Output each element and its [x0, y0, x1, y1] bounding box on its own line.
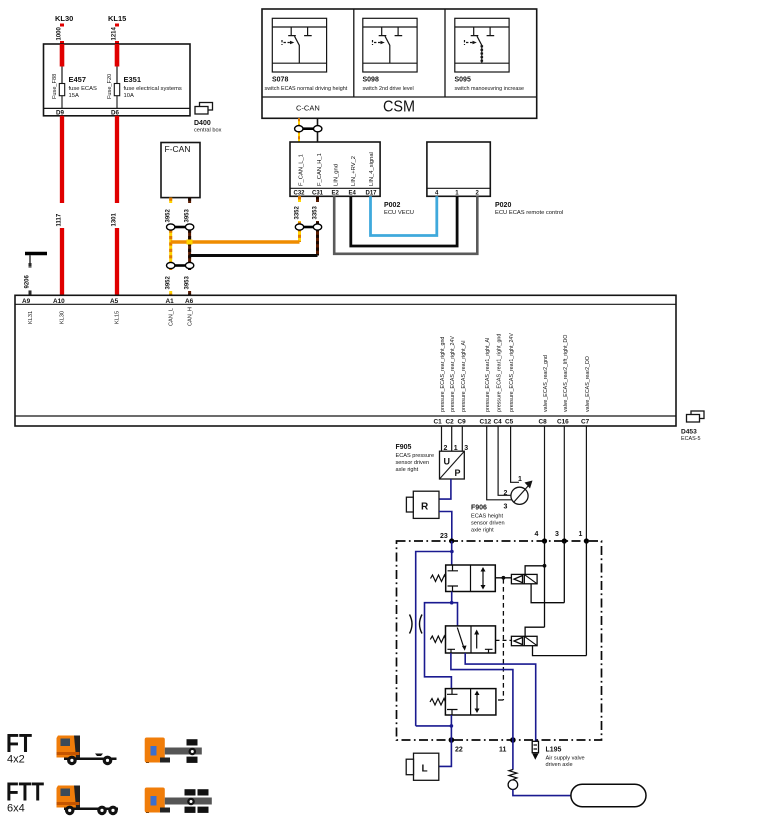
- svg-text:C-CAN: C-CAN: [296, 104, 320, 113]
- svg-text:S098: S098: [363, 77, 379, 84]
- svg-text:1000: 1000: [57, 26, 63, 40]
- svg-text:valve_ECAS_rear2_DO: valve_ECAS_rear2_DO: [585, 356, 591, 412]
- solenoid 1: [511, 574, 537, 583]
- R letter: [421, 502, 429, 513]
- svg-text:KL31: KL31: [28, 311, 34, 324]
- svg-text:switch 2nd drive level: switch 2nd drive level: [363, 86, 414, 92]
- svg-text:E4: E4: [349, 191, 357, 197]
- svg-text:pressure_ECAS_rear1_right_gnd: pressure_ECAS_rear1_right_gnd: [497, 334, 503, 412]
- ECU ECAS remote control P020 box: [427, 142, 490, 196]
- central box E-box outline: [44, 44, 191, 116]
- svg-text:4: 4: [535, 531, 539, 538]
- svg-text:KL30: KL30: [60, 311, 66, 324]
- svg-text:C32: C32: [294, 191, 306, 197]
- fuse E457 labels: [52, 74, 97, 99]
- wire 1301 red fuse D6 to ECU A5: [112, 116, 122, 295]
- ECU bottom pin C1: [434, 419, 590, 426]
- connector icon D400 central box: [195, 103, 213, 115]
- svg-text:D400: D400: [194, 120, 211, 127]
- ECU top pin A6: [185, 298, 194, 305]
- svg-text:1117: 1117: [57, 213, 63, 226]
- F906 pin number 3: [504, 504, 508, 511]
- wire blue valve1 node to valve3 top: [425, 603, 452, 689]
- wire blue pin 11 down to check valve: [512, 740, 514, 770]
- valve block pin 4: [535, 531, 548, 544]
- 4x2 label: [7, 754, 25, 766]
- svg-text:23: 23: [440, 533, 448, 540]
- svg-text:ECU VECU: ECU VECU: [384, 210, 414, 216]
- truck FTT top view: [145, 788, 212, 814]
- svg-text:E2: E2: [332, 191, 340, 197]
- L letter: [422, 764, 428, 775]
- valve 2 body: [446, 626, 496, 653]
- svg-text:C8: C8: [539, 419, 548, 426]
- valve 1 spring: [431, 575, 447, 582]
- svg-text:C5: C5: [505, 419, 514, 426]
- inline connector pair on F-CAN legs upper: [167, 224, 194, 230]
- truck FT side view: [57, 736, 117, 766]
- svg-text:A6: A6: [185, 298, 194, 305]
- svg-text:Fuse_F20: Fuse_F20: [107, 74, 113, 99]
- svg-text:C1: C1: [434, 419, 443, 426]
- connector icon D453: [687, 411, 705, 422]
- solenoid 2: [511, 636, 537, 645]
- svg-text:L195: L195: [546, 747, 562, 754]
- svg-text:9206: 9206: [25, 274, 31, 288]
- S078 labels: [265, 77, 348, 93]
- wire blue pin 22 to connector L: [439, 740, 452, 766]
- wire 3953 brown F-CAN right leg: [185, 198, 194, 296]
- wire ECU C12 to height sensor F906 pin 3: [487, 426, 512, 500]
- svg-text:D9: D9: [56, 110, 64, 117]
- wire 9206 ground to ECU A9: [25, 263, 35, 295]
- svg-text:S095: S095: [455, 77, 471, 84]
- wire ECU C7 to valve block pin 1: [585, 426, 587, 541]
- svg-text:11: 11: [499, 747, 507, 754]
- svg-text:C12: C12: [480, 419, 492, 426]
- wire black pin4 to solenoid2 top: [525, 627, 544, 636]
- svg-text:valve_ECAS_rear2_gnd: valve_ECAS_rear2_gnd: [543, 355, 549, 412]
- valve block pin 3: [555, 531, 567, 544]
- height sensor F906: [511, 481, 533, 505]
- wire black solenoid1 to pin 3: [531, 584, 564, 603]
- throttle symbol on riser: [410, 615, 423, 634]
- pilot wire blue pin 23 into valve 1: [450, 541, 454, 567]
- pin D6: [111, 110, 119, 117]
- svg-text:KL15: KL15: [115, 311, 121, 324]
- wire C-CAN L orange from CSM to VECU C32: [298, 118, 300, 142]
- P020 label: [495, 202, 563, 216]
- wire ECU C8 to valve block pin 4: [544, 426, 546, 541]
- valve 3 spring: [430, 699, 446, 706]
- svg-text:KL30: KL30: [55, 14, 73, 23]
- svg-text:pressure_ECAS_rear1_right_AI: pressure_ECAS_rear1_right_AI: [485, 338, 491, 413]
- svg-text:R: R: [421, 502, 429, 513]
- valve block pin 11: [499, 737, 516, 753]
- wire ECU C16 to valve block pin 3: [563, 426, 565, 541]
- truck FTT side view: [57, 786, 119, 816]
- wire blue valve3 bottom to pin 22 with riser junction: [416, 715, 454, 740]
- svg-text:ECAS height: ECAS height: [471, 514, 503, 520]
- svg-text:switch manoeuvring increase: switch manoeuvring increase: [455, 86, 525, 92]
- svg-text:axle right: axle right: [471, 528, 494, 534]
- svg-text:P020: P020: [495, 202, 511, 209]
- valve 1 levelling valve body: [446, 565, 496, 592]
- dashed pilot valve2 to solenoid2: [496, 639, 512, 641]
- svg-text:4x2: 4x2: [7, 754, 25, 766]
- D453 label: [681, 429, 700, 443]
- svg-text:F-CAN: F-CAN: [165, 144, 191, 154]
- svg-text:A9: A9: [22, 298, 31, 305]
- wire blue left riser from node 23: [416, 552, 452, 726]
- wire red inside box to fuse E457: [60, 44, 65, 84]
- svg-text:3953: 3953: [185, 275, 191, 289]
- valve 3 body: [445, 689, 496, 715]
- svg-text:pressure_ECAS_rear_right_gnd: pressure_ECAS_rear_right_gnd: [440, 337, 446, 412]
- F906 pin number 2: [504, 490, 508, 497]
- svg-text:22: 22: [455, 747, 463, 754]
- svg-text:L: L: [422, 764, 428, 775]
- svg-text:1301: 1301: [112, 212, 118, 226]
- ECU top pin A1: [166, 298, 175, 305]
- wire black solenoid2 to pin 1: [533, 646, 587, 656]
- svg-text:LIN_+RV_2: LIN_+RV_2: [351, 156, 357, 186]
- F905 label: [396, 444, 435, 473]
- svg-text:3352: 3352: [295, 205, 301, 219]
- ECU VECU P002 box: [290, 142, 380, 196]
- svg-text:1214: 1214: [112, 26, 118, 40]
- valve 2 spring: [430, 636, 446, 643]
- svg-text:C7: C7: [581, 419, 590, 426]
- svg-text:3: 3: [555, 531, 559, 538]
- 6x4 label: [7, 803, 25, 815]
- ECU ECAS main box D453: [15, 295, 676, 426]
- truck FT top view: [145, 738, 202, 764]
- svg-text:CSM: CSM: [383, 99, 415, 116]
- check valve spring: [509, 770, 517, 780]
- switch S098 symbol: [363, 18, 417, 72]
- P020 pin numbers: [435, 191, 480, 197]
- F-CAN box: [161, 143, 200, 198]
- D400 label: [194, 120, 222, 134]
- svg-text:CAN_H: CAN_H: [188, 307, 194, 326]
- valve block dash-dot enclosure: [397, 541, 602, 740]
- pressure sensor F905: [440, 451, 465, 479]
- svg-text:A1: A1: [166, 298, 175, 305]
- C-CAN node label: [296, 104, 320, 113]
- wire blue R to valve block pin 23: [439, 512, 452, 542]
- svg-text:ECAS pressure: ECAS pressure: [396, 453, 435, 459]
- ECU top pin A10: [53, 298, 65, 305]
- wire blue valve2 left port to pin 11: [451, 653, 513, 740]
- CSM label: [383, 99, 415, 116]
- CSM box outline: [262, 9, 537, 118]
- svg-text:sensor driven: sensor driven: [471, 521, 505, 527]
- air supply valve L195 symbol: [532, 740, 538, 760]
- svg-text:ECU ECAS remote control: ECU ECAS remote control: [495, 210, 563, 216]
- wire 3952 yellow F-CAN left leg: [166, 198, 176, 296]
- svg-text:2: 2: [504, 490, 508, 497]
- svg-text:CAN_L: CAN_L: [169, 308, 175, 326]
- svg-text:3953: 3953: [185, 208, 191, 222]
- wire blue LIN_4_signal D17 to P020 pin 4: [371, 196, 437, 235]
- wire 3353 brown below VECU C31: [313, 196, 322, 255]
- wire orange F-CAN L horizontal run: [171, 240, 300, 245]
- wire red inside box to fuse E351: [115, 44, 120, 84]
- wire black pin1 down: [585, 541, 587, 656]
- svg-text:C9: C9: [458, 419, 467, 426]
- wire 1214 red from KL15 to fuse box: [112, 24, 122, 45]
- svg-text:pressure_ECAS_rear1_right_24V: pressure_ECAS_rear1_right_24V: [509, 333, 515, 412]
- wire black valve1 to solenoid1 with pilot node: [495, 576, 511, 580]
- svg-text:switch ECAS normal driving hei: switch ECAS normal driving height: [265, 86, 348, 92]
- wire ECU C9 to sensor F905 pin 3: [461, 426, 463, 451]
- wire ECU C5 to height sensor F906 pin 1: [511, 426, 519, 482]
- svg-text:6x4: 6x4: [7, 803, 25, 815]
- L195 label: [546, 747, 585, 769]
- wire black pin3 down: [563, 541, 565, 603]
- inline connector pair below CSM: [295, 126, 322, 132]
- svg-text:F_CAN_L_1: F_CAN_L_1: [299, 154, 305, 186]
- connector L box: [406, 753, 439, 780]
- valve block pin 23: [440, 533, 454, 544]
- svg-text:A5: A5: [110, 298, 119, 305]
- air reservoir: [571, 784, 646, 806]
- svg-text:3952: 3952: [166, 208, 172, 222]
- svg-text:LIN_4_signal: LIN_4_signal: [369, 152, 375, 186]
- inline connector pair below VECU: [295, 224, 321, 230]
- ground symbol: [25, 254, 47, 264]
- svg-text:3: 3: [504, 504, 508, 511]
- wire blue check valve to reservoir: [513, 790, 571, 796]
- svg-text:C2: C2: [446, 419, 455, 426]
- resistor connector R: [406, 491, 439, 518]
- svg-text:S078: S078: [272, 77, 288, 84]
- svg-text:pressure_ECAS_rear_right_AI: pressure_ECAS_rear_right_AI: [461, 340, 467, 412]
- svg-text:fuse electrical systems: fuse electrical systems: [124, 86, 182, 92]
- check valve circle: [508, 780, 518, 790]
- svg-text:Fuse_F88: Fuse_F88: [52, 74, 58, 99]
- ECU bottom pin names: [440, 333, 591, 412]
- ECU top pin A9: [22, 298, 31, 305]
- ECU top pin A5: [110, 298, 119, 305]
- wire ECU C1 to sensor F905 pin 2: [441, 426, 443, 451]
- ECU internal names top: [28, 307, 194, 326]
- fuse E351 labels: [107, 74, 182, 99]
- F906 pin number 1: [518, 476, 522, 483]
- switch S078 symbol: [272, 18, 326, 72]
- svg-text:D453: D453: [681, 429, 697, 436]
- pin D9: [56, 110, 64, 117]
- switch S095 symbol: [455, 18, 509, 72]
- svg-text:F906: F906: [471, 505, 487, 512]
- svg-text:U: U: [444, 457, 451, 467]
- svg-text:1: 1: [518, 476, 522, 483]
- F906 label: [471, 505, 505, 534]
- wire 1117 red fuse D9 to ECU A10: [57, 116, 67, 295]
- svg-text:1: 1: [579, 531, 583, 538]
- wire 3352 yellow below VECU C32: [295, 196, 304, 242]
- svg-text:F905: F905: [396, 444, 412, 451]
- F905 pin numbers 2 1 3: [444, 445, 469, 452]
- svg-text:valve_ECAS_rear2_lift_right_DO: valve_ECAS_rear2_lift_right_DO: [563, 335, 569, 412]
- S095 labels: [455, 77, 525, 93]
- wire gray LIN_gnd E2 to P020 pin 2: [334, 196, 477, 254]
- wire ECU C4 to height sensor F906 pin 2: [498, 426, 511, 495]
- svg-text:sensor driven: sensor driven: [396, 460, 430, 466]
- svg-text:C16: C16: [557, 419, 569, 426]
- svg-text:KL15: KL15: [108, 14, 126, 23]
- wire blue valve1 bottom node: [450, 592, 454, 605]
- FTT label: [6, 777, 44, 807]
- svg-text:3353: 3353: [313, 205, 319, 219]
- svg-text:axle right: axle right: [396, 467, 419, 473]
- svg-text:fuse ECAS: fuse ECAS: [69, 86, 97, 92]
- wire blue F905 to R: [439, 479, 451, 499]
- wire black pin4 down with junction: [543, 541, 547, 627]
- svg-text:ECAS-5: ECAS-5: [681, 436, 700, 442]
- wire black F-CAN H horizontal run: [190, 254, 318, 257]
- svg-text:D6: D6: [111, 110, 119, 117]
- svg-text:F_CAN_H_1: F_CAN_H_1: [317, 153, 323, 186]
- svg-text:E351: E351: [124, 75, 142, 84]
- P002 label: [384, 202, 414, 216]
- F905 U P letters: [444, 457, 461, 479]
- wire ECU C2 to sensor F905 pin 1: [451, 426, 453, 451]
- P002 pin names: [299, 152, 376, 186]
- wire C-CAN H black from CSM to VECU C31: [317, 118, 319, 142]
- net KL15 label: [108, 14, 126, 23]
- wire black pin4 junction to solenoid1 top: [525, 566, 544, 575]
- svg-text:3952: 3952: [166, 275, 172, 289]
- svg-text:pressure_ECAS_rear_right_24V: pressure_ECAS_rear_right_24V: [450, 336, 456, 412]
- wire blue valve1 to valve2 top: [452, 603, 458, 626]
- pilot dashed line down from node: [498, 579, 503, 700]
- svg-text:E457: E457: [69, 75, 87, 84]
- svg-text:C31: C31: [312, 191, 324, 197]
- P002 pin numbers: [294, 191, 378, 197]
- valve block pin 22: [449, 737, 463, 753]
- wire 1000 red from KL30 to fuse box: [57, 24, 67, 45]
- wire blue valve2 right port to L195: [465, 653, 536, 740]
- FT label: [6, 728, 32, 758]
- svg-text:10A: 10A: [124, 93, 134, 99]
- svg-text:P: P: [455, 468, 461, 478]
- valve block pin 1: [579, 531, 590, 544]
- svg-text:Air supply valve: Air supply valve: [546, 756, 585, 762]
- svg-text:driven axle: driven axle: [546, 762, 573, 768]
- svg-text:C4: C4: [494, 419, 503, 426]
- fuse E457: [59, 84, 64, 109]
- svg-text:A10: A10: [53, 298, 65, 305]
- svg-text:central box: central box: [194, 128, 222, 134]
- F-CAN label: [165, 144, 191, 154]
- svg-text:LIN_gnd: LIN_gnd: [334, 164, 340, 186]
- svg-text:D17: D17: [366, 191, 378, 197]
- svg-text:15A: 15A: [69, 93, 79, 99]
- net KL30 label: [55, 14, 73, 23]
- inline connector pair on F-CAN legs lower: [167, 262, 194, 268]
- S098 labels: [363, 77, 414, 93]
- fuse E351: [114, 84, 119, 109]
- wire black LIN E4 to P020 pin 1: [351, 196, 457, 246]
- svg-text:P002: P002: [384, 202, 400, 209]
